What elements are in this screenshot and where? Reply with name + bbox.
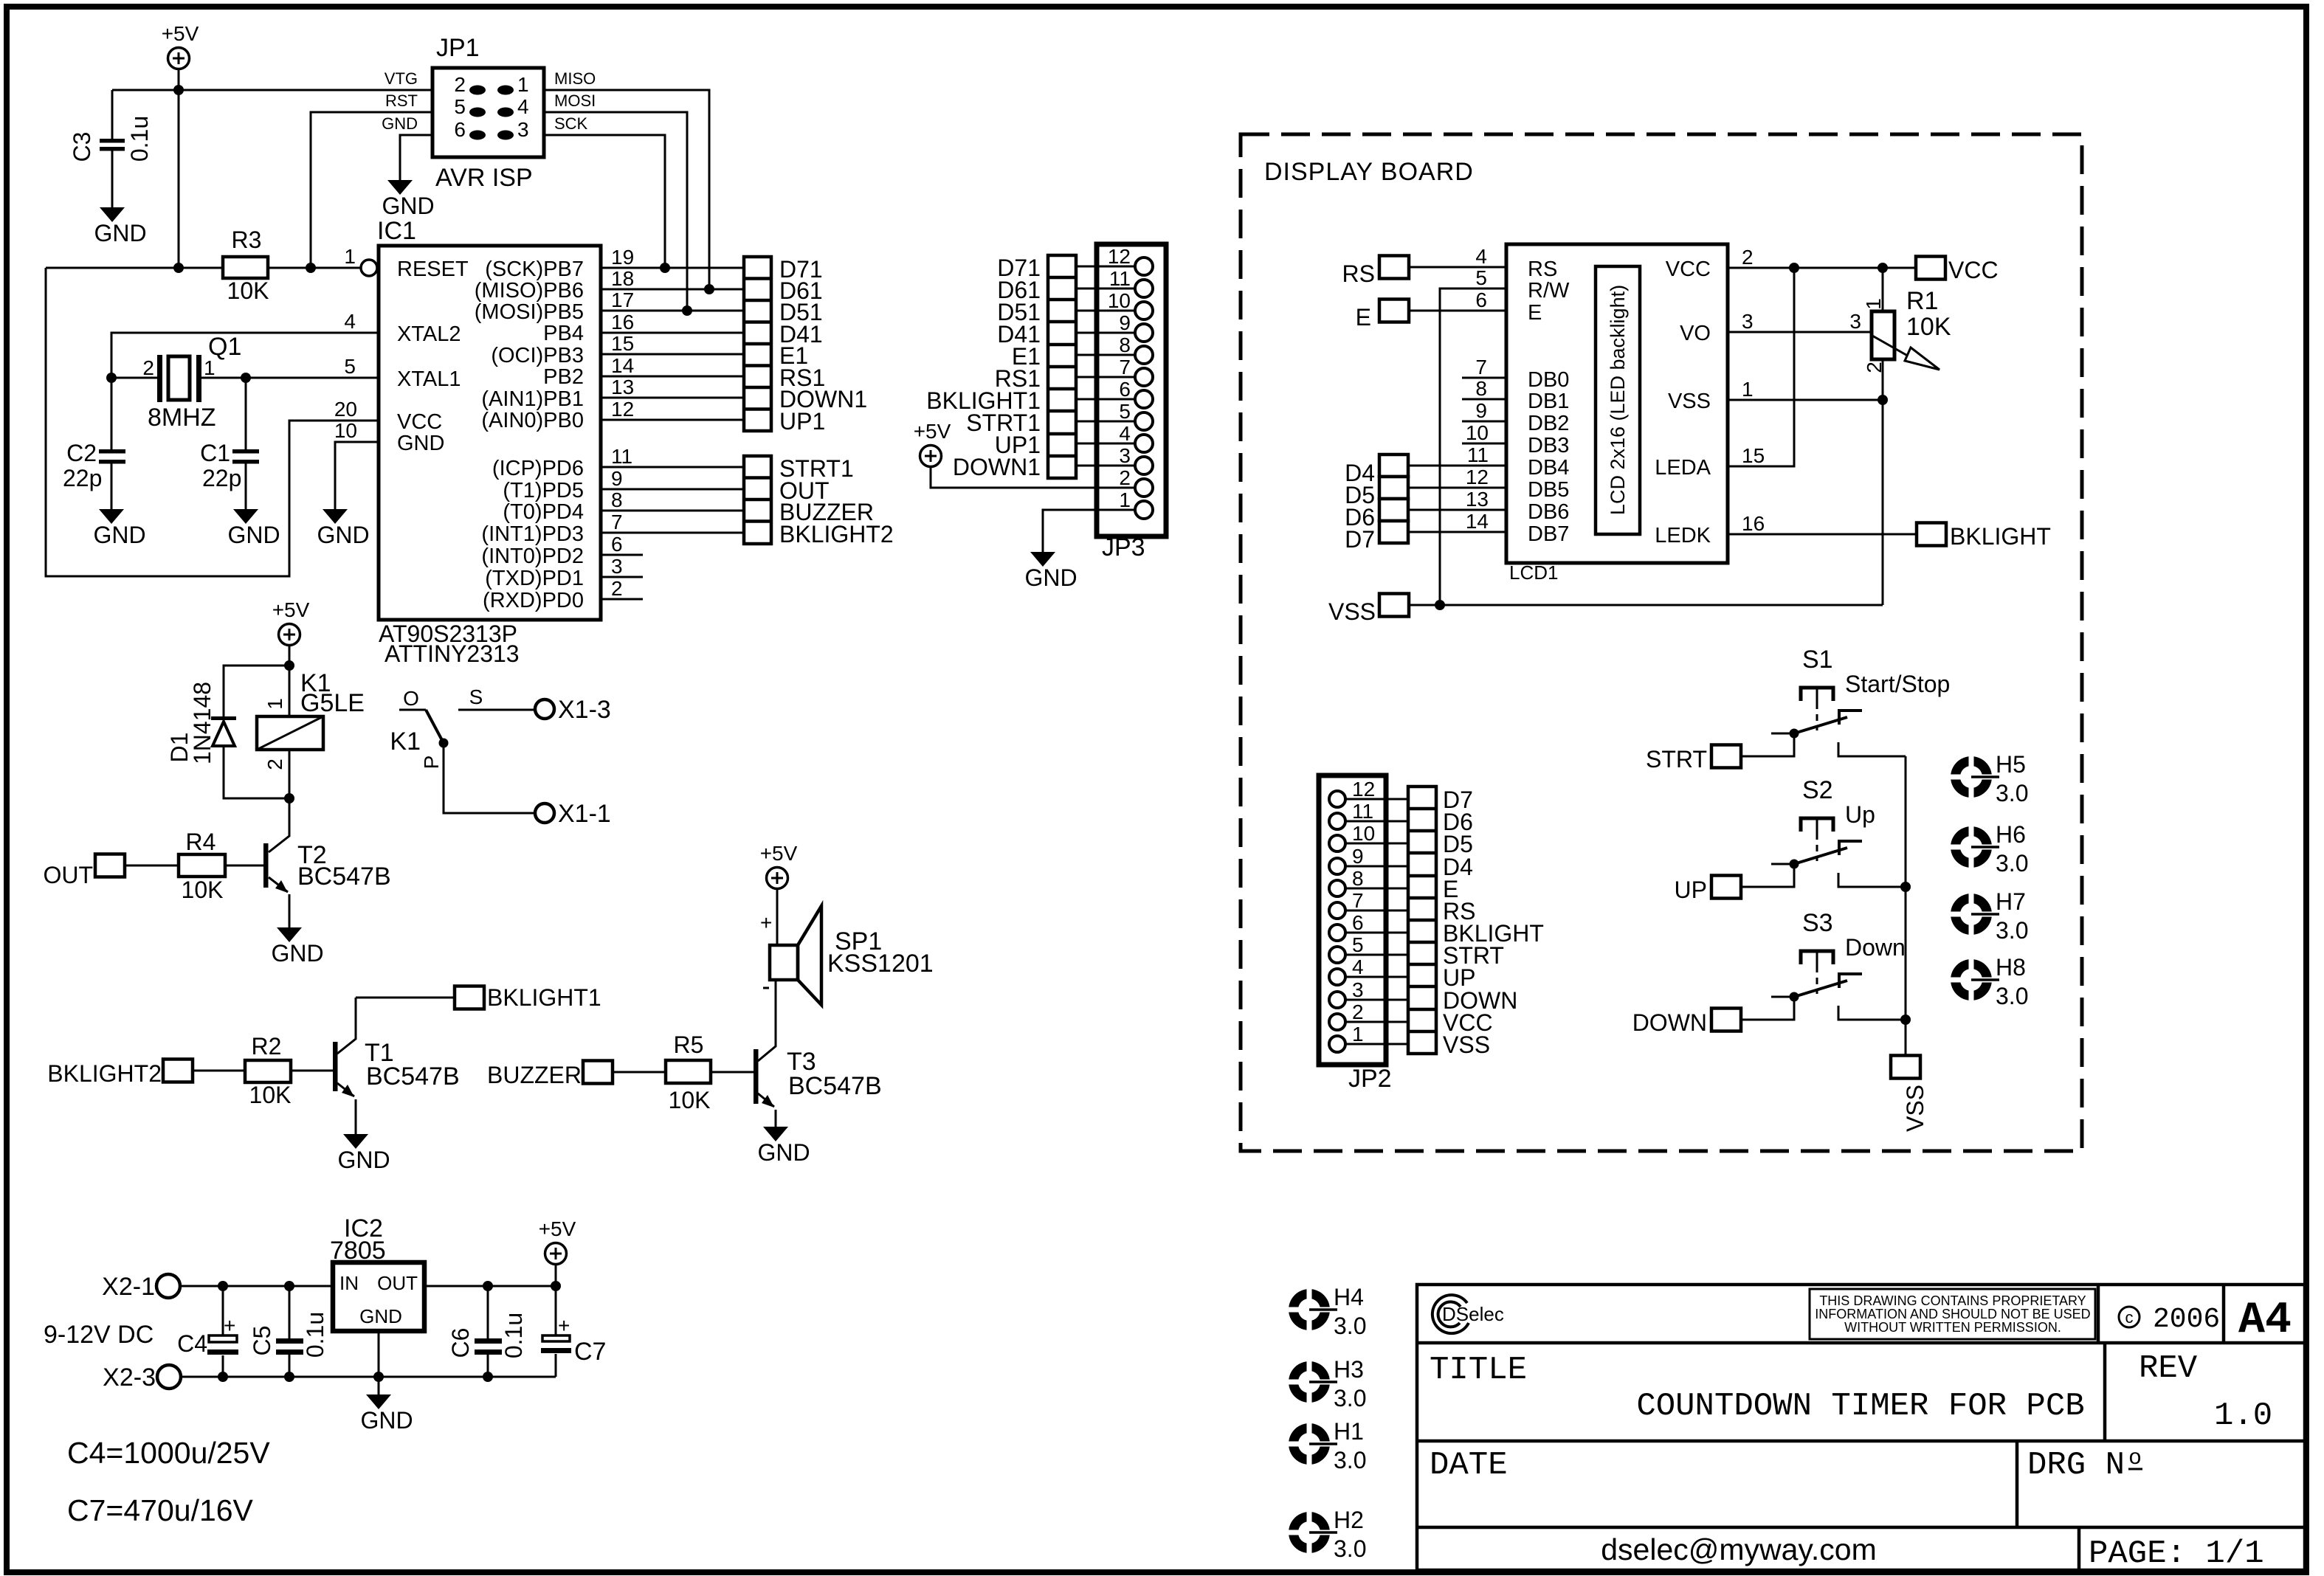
wire VCC loop (R3 rail to IC1 VCC pin20): [46, 268, 379, 576]
wire +5V to relay node: [289, 646, 291, 666]
svg-text:R4: R4: [186, 829, 216, 855]
node +5V/R3: [173, 263, 184, 273]
svg-text:20: 20: [334, 398, 357, 421]
svg-text:LCD 2x16 (LED backlight): LCD 2x16 (LED backlight): [1607, 285, 1629, 515]
pad X1-1: [535, 803, 554, 823]
svg-text:O: O: [403, 687, 419, 710]
svg-text:LEDA: LEDA: [1655, 456, 1711, 480]
speaker SP1 KSS1201: [770, 945, 798, 980]
svg-text:Up: Up: [1845, 801, 1875, 828]
ground below IC2: [360, 1394, 413, 1434]
connector JP2: [1319, 775, 1386, 1065]
title block frame: [1417, 1285, 2305, 1570]
svg-text:5: 5: [344, 355, 356, 378]
wire +5V down: [178, 69, 180, 268]
wire RS to LCD: [1409, 266, 1506, 269]
svg-text:RST: RST: [385, 91, 418, 110]
svg-text:WITHOUT WRITTEN PERMISSION.: WITHOUT WRITTEN PERMISSION.: [1844, 1320, 2061, 1335]
svg-text:DB2: DB2: [1528, 412, 1569, 435]
svg-text:PAGE: 1/1: PAGE: 1/1: [2089, 1535, 2264, 1572]
node VSS/R1: [1878, 395, 1888, 405]
svg-text:10K: 10K: [249, 1082, 292, 1108]
wire JP3 pin1 to ground: [1043, 510, 1135, 552]
proprietary notice box: [1810, 1289, 2095, 1339]
wire JP1 MOSI: [544, 112, 687, 311]
svg-text:C3: C3: [69, 132, 95, 162]
svg-text:C7: C7: [574, 1338, 606, 1366]
terminal VSS (switch bus): [1891, 1056, 1920, 1079]
node LEDA riser: [1789, 263, 1799, 273]
svg-text:2: 2: [1742, 246, 1754, 269]
svg-text:3.0: 3.0: [1996, 850, 2028, 877]
svg-text:1N4148: 1N4148: [189, 682, 215, 764]
svg-text:G5LE: G5LE: [300, 689, 365, 717]
svg-text:S: S: [469, 685, 483, 708]
node SCK/PB7: [660, 263, 670, 273]
capacitor C5 0.1u: [289, 1286, 291, 1377]
svg-text:15: 15: [611, 332, 634, 355]
svg-text:JP1: JP1: [436, 34, 480, 62]
node MOSI/PB5: [682, 305, 692, 316]
svg-text:H1: H1: [1334, 1418, 1364, 1445]
svg-text:REV: REV: [2139, 1350, 2198, 1387]
svg-text:VSS: VSS: [1668, 390, 1711, 413]
svg-text:5: 5: [1475, 266, 1487, 289]
wire JP1 SCK: [544, 135, 665, 268]
svg-text:A4: A4: [2238, 1296, 2292, 1346]
svg-text:1: 1: [1352, 1023, 1364, 1046]
terminal STRT: [1711, 745, 1741, 768]
wire VSS rail: [1409, 604, 1883, 606]
svg-text:INFORMATION AND SHOULD NOT BE: INFORMATION AND SHOULD NOT BE USED: [1815, 1307, 2090, 1321]
logo DSelec: [1432, 1295, 1469, 1333]
node C4 top: [218, 1281, 228, 1291]
svg-text:GND: GND: [359, 1305, 402, 1327]
svg-text:LEDK: LEDK: [1655, 524, 1711, 547]
svg-text:3: 3: [1742, 310, 1754, 333]
node S2 common: [1900, 882, 1911, 892]
svg-text:8: 8: [611, 488, 623, 511]
+5V supply for JP3: [914, 420, 951, 467]
node R1 pin1: [1878, 263, 1888, 273]
svg-text:(TXD)PD1: (TXD)PD1: [485, 567, 584, 590]
svg-text:H7: H7: [1996, 888, 2026, 915]
wire input rail: [180, 1285, 333, 1288]
node crystal/C1: [241, 373, 251, 383]
svg-text:KSS1201: KSS1201: [827, 950, 934, 978]
svg-text:5: 5: [1352, 933, 1364, 956]
capacitor C4 1000u/25V: [222, 1286, 224, 1377]
terminal strip JP3 nets: [1048, 255, 1076, 478]
svg-text:1: 1: [517, 73, 529, 96]
svg-text:0.1u: 0.1u: [302, 1312, 328, 1358]
wires JP3 pins to strip: [1076, 266, 1135, 466]
svg-text:13: 13: [1466, 488, 1489, 511]
svg-text:10: 10: [334, 419, 357, 442]
pad X2-3: [157, 1365, 181, 1389]
terminal BUZZER: [583, 1061, 613, 1084]
trimmer R1 10K: [1882, 268, 1884, 605]
svg-text:TITLE: TITLE: [1430, 1352, 1527, 1389]
svg-text:14: 14: [611, 354, 634, 377]
node IC2 GND: [373, 1372, 384, 1382]
svg-text:4: 4: [1119, 422, 1131, 445]
+5V supply for relay K1: [272, 598, 310, 646]
svg-text:14: 14: [1466, 510, 1489, 533]
svg-text:BC547B: BC547B: [297, 863, 391, 891]
svg-text:7: 7: [611, 511, 623, 533]
svg-text:8: 8: [1475, 377, 1487, 400]
ground below C3: [94, 207, 146, 246]
terminal strip JP2 nets: [1408, 787, 1436, 1054]
capacitor C3 0.1u: [111, 90, 114, 207]
svg-text:VSS: VSS: [1902, 1085, 1928, 1132]
svg-text:2: 2: [142, 356, 154, 379]
+5V output of regulator: [539, 1217, 576, 1265]
capacitor C7 470u/16V: [555, 1286, 557, 1377]
terminal VSS: [1379, 594, 1409, 617]
svg-text:1: 1: [1742, 378, 1754, 401]
node C5 top: [284, 1281, 294, 1291]
capacitor C1 22p: [245, 378, 247, 509]
svg-text:8: 8: [1119, 333, 1131, 356]
svg-text:3.0: 3.0: [1996, 917, 2028, 944]
svg-text:2: 2: [263, 758, 286, 770]
svg-text:DRG N: DRG N: [2027, 1447, 2125, 1484]
svg-text:BKLIGHT2: BKLIGHT2: [779, 521, 894, 547]
terminal RS: [1379, 256, 1409, 279]
svg-text:VO: VO: [1680, 322, 1711, 345]
svg-text:(INT0)PD2: (INT0)PD2: [481, 545, 584, 568]
connector JP3: [1097, 244, 1166, 536]
svg-text:2006: 2006: [2153, 1304, 2220, 1335]
svg-text:C6: C6: [447, 1328, 474, 1358]
terminal DOWN: [1711, 1009, 1741, 1031]
svg-text:BKLIGHT: BKLIGHT: [1950, 523, 2051, 550]
svg-text:(RXD)PD0: (RXD)PD0: [483, 589, 584, 612]
svg-text:UP: UP: [1675, 877, 1707, 903]
svg-text:RS: RS: [1342, 260, 1375, 287]
svg-text:11: 11: [1467, 443, 1489, 466]
svg-text:IN: IN: [339, 1272, 359, 1294]
svg-text:13: 13: [611, 376, 634, 398]
svg-text:(AIN1)PB1: (AIN1)PB1: [481, 387, 584, 411]
svg-text:5: 5: [454, 95, 466, 118]
svg-text:10K: 10K: [227, 277, 269, 304]
svg-text:GND: GND: [397, 432, 444, 455]
svg-text:X2-3: X2-3: [103, 1364, 156, 1392]
svg-text:3.0: 3.0: [1996, 780, 2028, 806]
svg-text:VCC: VCC: [1666, 258, 1711, 281]
svg-text:12: 12: [611, 398, 634, 421]
svg-text:E: E: [1528, 301, 1542, 325]
+5V supply symbol (top left): [162, 22, 199, 69]
svg-text:Start/Stop: Start/Stop: [1845, 671, 1950, 697]
wire JP1 MISO: [544, 90, 709, 289]
svg-text:GND: GND: [382, 114, 418, 133]
ground below JP1: [382, 180, 434, 219]
svg-text:(SCK)PB7: (SCK)PB7: [485, 258, 584, 281]
terminal OUT: [95, 854, 125, 877]
node relay bottom: [284, 793, 294, 803]
LCD module LCD1: [1506, 244, 1728, 563]
svg-text:DB5: DB5: [1528, 478, 1569, 502]
wire IC2 GND pin: [378, 1331, 380, 1394]
mounting hole H7: [1948, 891, 1999, 937]
svg-text:10K: 10K: [182, 877, 224, 903]
svg-text:BC547B: BC547B: [366, 1062, 460, 1091]
svg-text:X1-1: X1-1: [558, 800, 611, 828]
wire diode branch: [224, 666, 289, 798]
wire JP1 RST to R3 net: [311, 112, 432, 268]
wire E to LCD: [1409, 310, 1506, 312]
display board dashed outline: [1241, 134, 2082, 1151]
ground below T1: [337, 1134, 390, 1173]
svg-text:17: 17: [611, 288, 634, 311]
wire JP1 GND pin6: [400, 135, 432, 180]
wire K1 pole to X1-1: [444, 743, 535, 813]
crystal Q1 8MHZ: [168, 356, 190, 400]
svg-text:MOSI: MOSI: [554, 91, 596, 110]
svg-text:8: 8: [1352, 867, 1364, 890]
diode D1 1N4148: [211, 716, 236, 720]
svg-text:X1-3: X1-3: [558, 696, 611, 724]
svg-text:VCC: VCC: [1948, 257, 1999, 283]
svg-text:(T0)PD4: (T0)PD4: [503, 500, 584, 524]
svg-text:2: 2: [454, 73, 466, 96]
svg-text:6: 6: [1352, 911, 1364, 934]
svg-text:(OCI)PB3: (OCI)PB3: [491, 344, 584, 367]
svg-text:C5: C5: [249, 1326, 275, 1356]
svg-text:3.0: 3.0: [1334, 1313, 1366, 1339]
svg-text:(T1)PD5: (T1)PD5: [503, 479, 584, 502]
svg-text:3: 3: [517, 118, 529, 141]
node junction +5V/C3: [173, 85, 184, 95]
svg-text:K1: K1: [390, 727, 421, 756]
wire IC2 OUT rail: [424, 1285, 556, 1288]
terminal UP: [1711, 876, 1741, 899]
node MISO/PB6: [704, 284, 714, 294]
terminal E: [1379, 300, 1409, 322]
svg-text:10K: 10K: [1906, 313, 1951, 341]
terminal BKLIGHT2: [163, 1060, 193, 1082]
svg-text:3.0: 3.0: [1996, 983, 2028, 1009]
wires D4-D7 to LCD: [1408, 466, 1506, 532]
svg-text:XTAL2: XTAL2: [397, 322, 461, 346]
resistor R5 10K: [613, 1071, 754, 1074]
resistor R3 10K: [46, 267, 361, 269]
svg-text:(ICP)PD6: (ICP)PD6: [492, 457, 584, 480]
svg-text:C2: C2: [66, 440, 97, 466]
pad X1-3: [535, 699, 554, 719]
connector JP1 AVR ISP: [432, 68, 544, 157]
svg-text:DB1: DB1: [1528, 390, 1569, 413]
svg-text:C1: C1: [200, 440, 230, 466]
ground below T2: [271, 927, 323, 967]
svg-text:9-12V DC: 9-12V DC: [44, 1321, 154, 1349]
svg-text:DSelec: DSelec: [1442, 1303, 1504, 1325]
svg-text:(MOSI)PB5: (MOSI)PB5: [475, 300, 584, 324]
svg-text:4: 4: [344, 310, 356, 333]
terminal strip D71..UP1: [744, 257, 771, 431]
mounting hole H6: [1948, 824, 1999, 870]
svg-text:3.0: 3.0: [1334, 1535, 1366, 1562]
svg-text:1: 1: [1862, 298, 1885, 310]
svg-text:IC1: IC1: [377, 217, 416, 245]
svg-text:10: 10: [1108, 289, 1131, 312]
svg-text:1: 1: [344, 245, 356, 268]
svg-text:2: 2: [1352, 1000, 1364, 1023]
svg-text:THIS DRAWING CONTAINS PROPRIET: THIS DRAWING CONTAINS PROPRIETARY: [1819, 1293, 2086, 1308]
wire LCD VCC pin2: [1728, 267, 1916, 269]
svg-text:SCK: SCK: [554, 114, 588, 133]
svg-text:R3: R3: [232, 227, 262, 253]
svg-text:7: 7: [1119, 356, 1131, 379]
IC1 unused pin stubs 6,3,2: [601, 555, 643, 599]
svg-text:VSS: VSS: [1443, 1031, 1490, 1058]
svg-text:3: 3: [1849, 310, 1861, 333]
svg-text:2: 2: [1863, 362, 1886, 373]
ground below JP3: [1024, 552, 1077, 591]
svg-text:JP3: JP3: [1102, 533, 1145, 561]
svg-text:5: 5: [1119, 400, 1131, 423]
svg-text:9: 9: [1475, 399, 1487, 422]
wires JP2 pins to strip: [1345, 799, 1408, 1044]
svg-text:DB6: DB6: [1528, 500, 1569, 524]
node relay top: [284, 660, 294, 671]
node C4 bottom: [218, 1372, 228, 1382]
svg-text:DB3: DB3: [1528, 434, 1569, 457]
svg-text:H4: H4: [1334, 1284, 1364, 1310]
wire +5V rail to JP1 VTG: [112, 89, 432, 91]
svg-text:1: 1: [1119, 488, 1131, 511]
svg-text:MISO: MISO: [554, 69, 596, 88]
svg-text:9: 9: [1352, 845, 1364, 868]
svg-text:1: 1: [263, 698, 286, 710]
wire R/W to VSS bus: [1440, 288, 1506, 605]
svg-text:OUT: OUT: [377, 1272, 418, 1294]
svg-text:16: 16: [611, 311, 634, 333]
terminal BKLIGHT: [1917, 523, 1946, 546]
svg-text:2: 2: [1119, 466, 1131, 489]
svg-text:4: 4: [1352, 955, 1364, 978]
node C6 bottom: [483, 1372, 493, 1382]
svg-text:22p: 22p: [63, 465, 102, 491]
svg-text:PB2: PB2: [543, 365, 584, 389]
svg-text:P: P: [420, 756, 443, 770]
svg-text:3: 3: [611, 555, 623, 578]
wire XTAL1 pin5 row: [111, 377, 379, 379]
wire LCD LEDK pin16 to BKLIGHT: [1728, 533, 1917, 536]
terminal strip STRT1..BKLIGHT2: [744, 456, 771, 544]
svg-text:AVR ISP: AVR ISP: [435, 164, 533, 192]
wire +5V to speaker: [776, 889, 779, 945]
svg-text:6: 6: [1119, 378, 1131, 401]
svg-text:D7: D7: [1345, 526, 1375, 553]
svg-text:VTG: VTG: [385, 69, 418, 88]
node S3 common: [1900, 1015, 1911, 1025]
svg-text:RESET: RESET: [397, 258, 469, 281]
svg-text:BKLIGHT2: BKLIGHT2: [47, 1060, 162, 1087]
svg-text:COUNTDOWN TIMER FOR PCB: COUNTDOWN TIMER FOR PCB: [1636, 1388, 2084, 1425]
svg-text:4: 4: [1475, 245, 1487, 268]
terminal BKLIGHT1: [455, 986, 484, 1009]
svg-text:S3: S3: [1802, 909, 1833, 937]
wire T1 collector to BKLIGHT1: [356, 997, 455, 999]
svg-text:DB7: DB7: [1528, 522, 1569, 546]
svg-text:DB4: DB4: [1528, 456, 1569, 480]
pad X2-1: [156, 1274, 180, 1298]
ground below C1: [227, 509, 280, 548]
svg-text:11: 11: [1352, 800, 1373, 823]
svg-text:7: 7: [1475, 356, 1487, 379]
svg-text:12: 12: [1352, 778, 1375, 801]
svg-text:BUZZER: BUZZER: [487, 1062, 582, 1088]
svg-text:S1: S1: [1802, 646, 1833, 674]
mounting hole H5: [1948, 754, 1999, 800]
svg-text:Down: Down: [1845, 934, 1906, 961]
svg-text:1: 1: [204, 356, 215, 379]
svg-text:R/W: R/W: [1528, 279, 1570, 303]
svg-text:+: +: [224, 1314, 235, 1337]
ground below IC1 pin10: [317, 509, 369, 548]
svg-text:15: 15: [1742, 444, 1765, 467]
resistor R2 10K: [193, 1070, 333, 1072]
svg-text:R1: R1: [1906, 287, 1938, 315]
svg-text:E: E: [1356, 304, 1371, 331]
wire XTAL2 pin4: [111, 333, 379, 378]
svg-text:DOWN1: DOWN1: [953, 454, 1041, 480]
wire GND pin10: [335, 442, 379, 509]
svg-text:3: 3: [1352, 978, 1364, 1001]
svg-text:DOWN: DOWN: [1632, 1009, 1707, 1036]
node C6 top: [483, 1281, 493, 1291]
svg-text:UP1: UP1: [779, 408, 825, 435]
node VSS bus: [1435, 600, 1445, 610]
terminals D4-D7: [1379, 455, 1408, 543]
svg-text:XTAL1: XTAL1: [397, 367, 461, 391]
svg-text:10: 10: [1352, 822, 1375, 845]
svg-text:10K: 10K: [669, 1087, 711, 1113]
svg-text:(AIN0)PB0: (AIN0)PB0: [481, 409, 584, 432]
svg-text:R2: R2: [252, 1033, 282, 1060]
resistor R4 10K: [125, 865, 263, 867]
svg-text:0.1u: 0.1u: [126, 116, 153, 162]
svg-text:BKLIGHT1: BKLIGHT1: [487, 984, 601, 1011]
node C7 top: [551, 1281, 561, 1291]
svg-text:VSS: VSS: [1328, 598, 1376, 625]
svg-text:8MHZ: 8MHZ: [148, 404, 216, 432]
ground below C2: [93, 509, 145, 548]
svg-text:S2: S2: [1802, 776, 1833, 804]
terminal VCC: [1916, 257, 1945, 280]
svg-text:RS: RS: [1528, 258, 1557, 281]
svg-text:LCD1: LCD1: [1509, 561, 1558, 584]
svg-text:X2-1: X2-1: [102, 1273, 155, 1301]
IC1 port D pin wires 11,9,8,7: [601, 467, 744, 533]
svg-text:18: 18: [611, 267, 634, 290]
svg-text:9: 9: [1119, 311, 1131, 334]
svg-text:C4: C4: [177, 1330, 207, 1357]
svg-text:c: c: [2125, 1308, 2134, 1327]
svg-text:6: 6: [611, 533, 623, 556]
svg-text:16: 16: [1742, 512, 1765, 535]
svg-text:DATE: DATE: [1430, 1447, 1508, 1484]
capacitor C2 22p: [111, 378, 113, 509]
svg-text:PB4: PB4: [543, 322, 584, 345]
svg-text:12: 12: [1466, 466, 1489, 488]
svg-text:H8: H8: [1996, 954, 2026, 981]
